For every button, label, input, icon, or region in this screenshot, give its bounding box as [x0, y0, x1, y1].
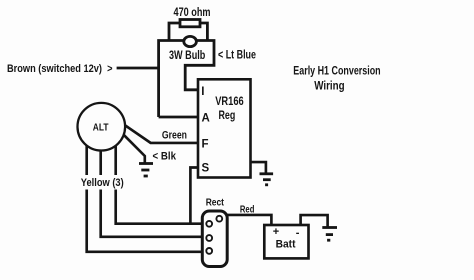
- yellow wire 1 (left): [87, 140, 203, 252]
- label Yellow (3): [79, 175, 127, 190]
- svg-text:< Blk: < Blk: [153, 151, 177, 163]
- wire: red rectifier to battery: [227, 215, 271, 225]
- wire: regulator to ground: [251, 162, 266, 172]
- battery Batt: [264, 225, 308, 258]
- svg-text:Reg: Reg: [219, 110, 236, 122]
- rectifier terminal hole (left 1): [206, 221, 212, 227]
- lamp housing box (3W Bulb): [159, 41, 214, 118]
- svg-text:S: S: [202, 163, 210, 175]
- ground (Blk): [139, 164, 153, 177]
- svg-text:3W Bulb: 3W Bulb: [169, 50, 205, 62]
- rectifier terminal hole (left 3): [206, 248, 212, 254]
- wire: battery negative to ground: [301, 215, 328, 227]
- svg-text:Early H1 Conversion: Early H1 Conversion: [293, 65, 380, 77]
- yellow wire 3 (right): [116, 140, 203, 224]
- svg-text:ALT: ALT: [93, 123, 109, 134]
- wire: resistor parallel loop (right side): [200, 23, 207, 41]
- svg-text:Red: Red: [240, 203, 255, 215]
- svg-text:F: F: [202, 139, 209, 151]
- yellow wire 2 (middle): [101, 140, 203, 237]
- svg-text:Rect: Rect: [206, 196, 225, 208]
- svg-text:-: -: [296, 227, 300, 239]
- svg-text:< Lt Blue: < Lt Blue: [218, 50, 256, 62]
- svg-text:Yellow (3): Yellow (3): [81, 177, 124, 189]
- svg-text:+: +: [273, 226, 279, 238]
- ground (battery): [322, 228, 337, 241]
- svg-text:A: A: [202, 113, 210, 125]
- wire: green ALT to F pin: [110, 124, 198, 142]
- regulator U1 VR166 Reg box: [198, 79, 251, 177]
- svg-text:Wiring: Wiring: [314, 81, 344, 93]
- svg-text:470 ohm: 470 ohm: [174, 7, 211, 19]
- wire: black ALT to ground: [108, 128, 145, 163]
- wire: resistor parallel loop (left side): [169, 23, 180, 41]
- svg-text:Brown (switched 12v) >: Brown (switched 12v) >: [7, 63, 113, 75]
- svg-text:I: I: [201, 86, 204, 98]
- wire: S pin down to rectifier feed: [190, 168, 198, 224]
- wire: brown feed: [117, 67, 159, 70]
- rectifier terminal hole (left 2): [206, 235, 212, 241]
- ground (regulator): [260, 174, 274, 185]
- svg-text:Batt: Batt: [276, 239, 296, 251]
- rectifier terminal hole (top right): [216, 216, 222, 222]
- wire: A pin to brown/lamp junction: [159, 116, 198, 119]
- svg-text:VR166: VR166: [215, 96, 244, 108]
- rectifier Rect body: [202, 211, 227, 267]
- resistor R1 470 ohm: [180, 20, 200, 27]
- svg-text:Green: Green: [162, 129, 187, 141]
- alternator ALT: [78, 103, 126, 151]
- bulb B1 (3W): [184, 36, 197, 46]
